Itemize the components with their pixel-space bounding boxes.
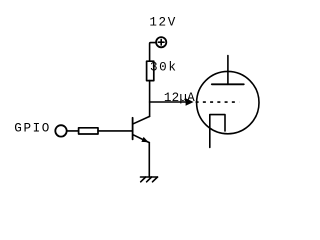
arrowhead 12uA — [186, 98, 194, 106]
resistor R2 base body — [79, 128, 98, 134]
wire terminal to base resistor — [67, 130, 79, 132]
GPIO terminal circle — [55, 125, 66, 136]
transistor Q1 emitter — [133, 135, 149, 143]
resistor R1 30k body — [147, 61, 154, 80]
tube cathode — [210, 115, 225, 148]
svg-text:GPIO: GPIO — [14, 121, 51, 135]
wire resistor to collector node — [149, 81, 151, 117]
tube plate bar — [212, 83, 244, 85]
node junction / wire 12uA branch — [150, 101, 187, 103]
tube plate lead — [227, 56, 229, 85]
svg-text:12V: 12V — [149, 16, 176, 30]
tube V1 envelope — [197, 71, 259, 133]
transistor Q1 collector — [133, 116, 149, 123]
svg-text:30k: 30k — [150, 60, 177, 74]
svg-text:12µA: 12µA — [164, 91, 195, 105]
tube grid dashed — [196, 101, 240, 103]
wire base resistor to transistor — [98, 130, 132, 132]
power terminal + — [156, 37, 166, 47]
ground — [141, 177, 158, 182]
wire from terminal to resistor — [150, 43, 157, 62]
transistor Q1 base bar — [132, 118, 134, 140]
wire emitter to ground — [148, 143, 150, 177]
